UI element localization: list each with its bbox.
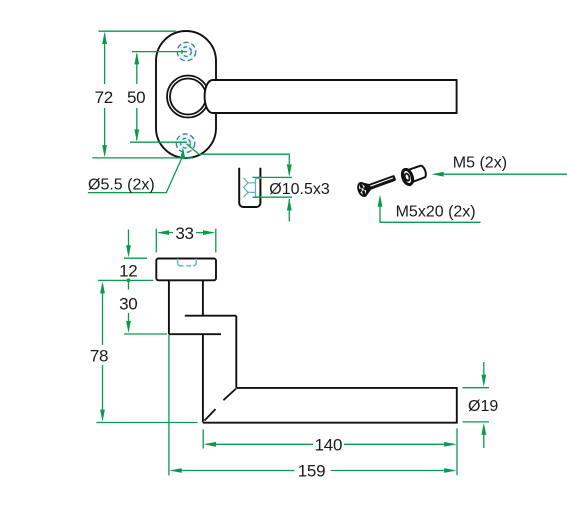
screw M5x20	[355, 170, 398, 198]
neck side view	[169, 280, 203, 334]
hidden counterbore (blue dashes)	[244, 178, 263, 197]
dimension 140	[203, 428, 457, 475]
leader from hole to counterbore detail	[187, 144, 292, 177]
svg-text:50: 50	[127, 88, 145, 107]
dimension 78	[97, 280, 198, 422]
svg-text:Ø10.5x3: Ø10.5x3	[269, 181, 330, 198]
hidden spindle hole (blue dashes)	[178, 259, 197, 266]
svg-text:78: 78	[90, 347, 108, 366]
rosette section view (U profile)	[239, 168, 260, 207]
svg-text:159: 159	[298, 462, 325, 481]
dimension 12	[124, 230, 147, 283]
rosette plan view (oval)	[156, 31, 216, 158]
svg-text:72: 72	[95, 88, 113, 107]
sleeve nut M5	[400, 163, 427, 186]
rosette side view	[156, 259, 216, 281]
svg-text:M5x20 (2x): M5x20 (2x)	[396, 204, 476, 221]
svg-text:Ø19: Ø19	[468, 398, 498, 415]
dimension 33	[156, 229, 216, 253]
svg-text:33: 33	[175, 224, 193, 243]
svg-text:Ø5.5 (2x): Ø5.5 (2x)	[88, 176, 155, 193]
svg-text:M5 (2x): M5 (2x)	[453, 155, 507, 172]
dimension 72 extension lines	[92, 31, 193, 158]
grip side view	[203, 388, 457, 423]
label M5 (2x) with arrow	[432, 172, 567, 177]
lever grip plan view	[205, 80, 457, 113]
dimension 50 line and arrows	[134, 52, 139, 141]
dimension Ø19	[463, 362, 490, 448]
dimension Ø10.5x3 extension lines	[253, 177, 292, 197]
leader line Ø5.5	[88, 148, 185, 193]
dimension 159	[169, 335, 457, 476]
dimension 30	[124, 282, 167, 334]
svg-text:30: 30	[119, 295, 137, 314]
label M5x20 (2x) with leader	[378, 195, 481, 223]
svg-text:140: 140	[315, 435, 342, 454]
dimension 72 line and arrows	[102, 32, 107, 158]
neck collar circles	[167, 76, 209, 118]
screw hole bottom (dashed)	[176, 134, 195, 153]
mitre weld lines	[205, 389, 237, 421]
crank joint lines	[169, 316, 236, 335]
dimension Ø10.5x3 arrows	[287, 164, 292, 221]
screw hole top (dashed)	[177, 42, 196, 61]
svg-text:12: 12	[119, 262, 137, 281]
lever arm side view	[203, 316, 236, 423]
dimension 50 extension lines	[130, 52, 187, 143]
